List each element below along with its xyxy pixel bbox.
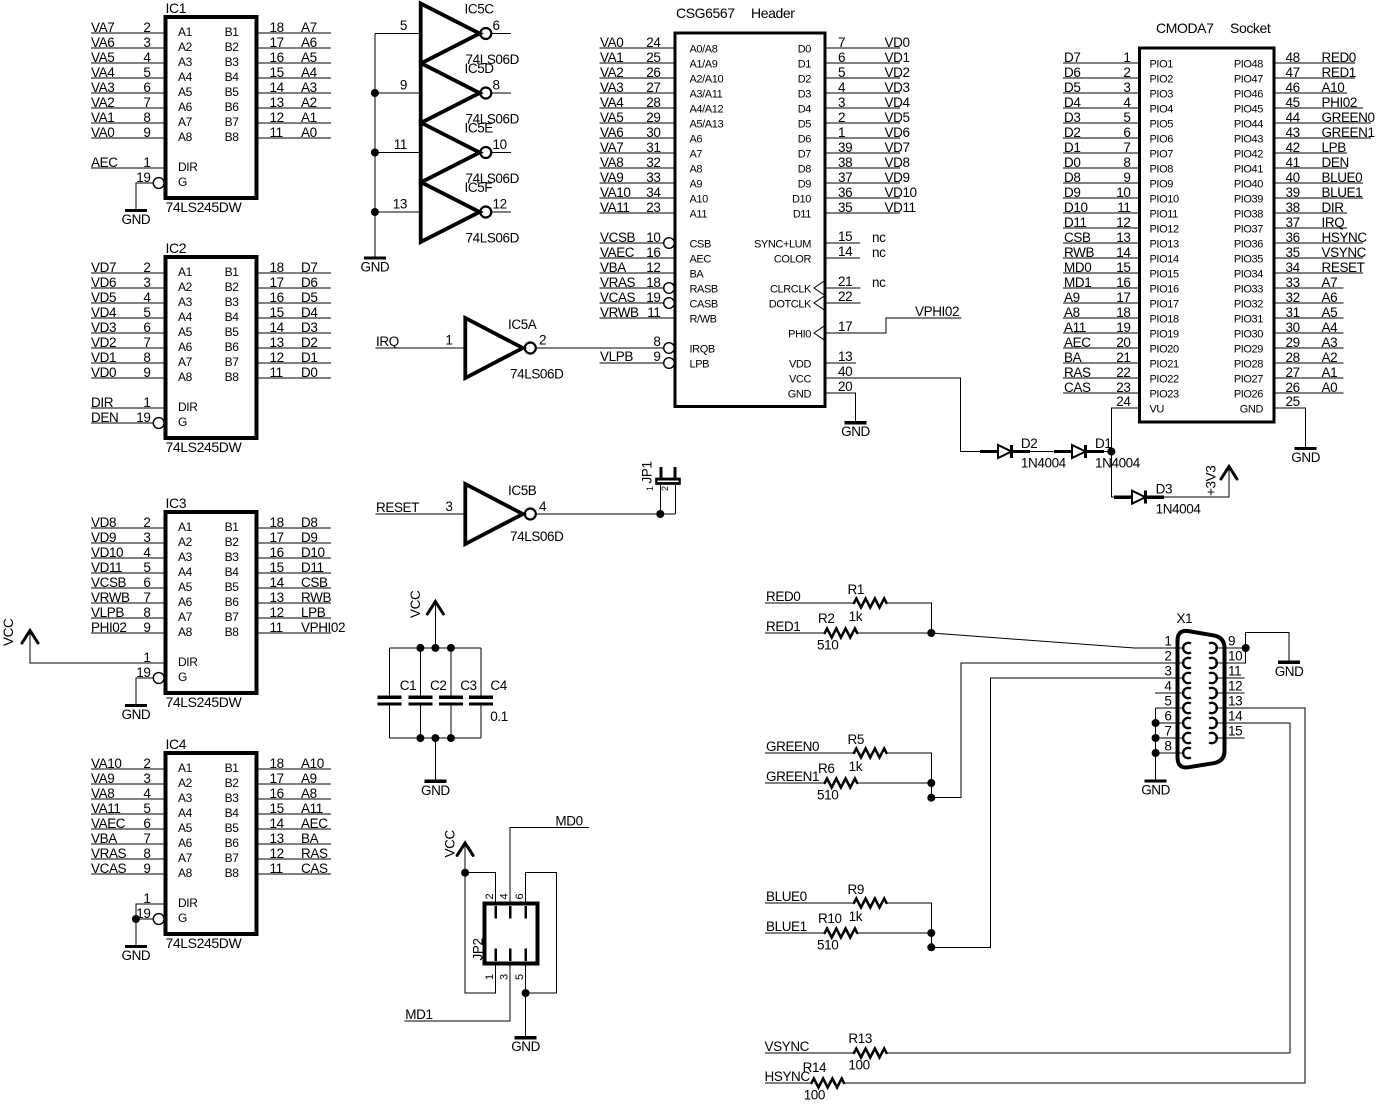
CSG6567 pin 39 wire VD7 xyxy=(798,140,910,161)
svg-text:PIO42: PIO42 xyxy=(1234,149,1263,161)
svg-text:IC5F: IC5F xyxy=(465,180,493,195)
svg-text:15: 15 xyxy=(838,229,852,244)
CSG6567 pin 36 wire VD10 xyxy=(792,185,917,206)
svg-text:2: 2 xyxy=(1164,649,1171,664)
CMODA7 pin 43 wire GREEN1 xyxy=(1234,125,1375,146)
svg-text:A10: A10 xyxy=(1322,80,1345,95)
svg-text:16: 16 xyxy=(270,545,284,560)
svg-text:B8: B8 xyxy=(225,370,240,384)
svg-text:4: 4 xyxy=(143,786,151,801)
svg-text:8: 8 xyxy=(143,605,150,620)
svg-text:VCC: VCC xyxy=(443,830,458,858)
IC4 pin 2 wire VA10 xyxy=(91,756,193,775)
IC IC4 74LS245 box xyxy=(166,736,257,951)
svg-text:6: 6 xyxy=(838,50,845,65)
svg-text:74LS06D: 74LS06D xyxy=(510,529,564,544)
svg-text:A6: A6 xyxy=(1322,290,1338,305)
svg-text:G: G xyxy=(178,415,187,429)
svg-text:D1: D1 xyxy=(1064,140,1080,155)
svg-text:SYNC+LUM: SYNC+LUM xyxy=(754,239,811,251)
svg-text:VPHI02: VPHI02 xyxy=(301,620,345,635)
svg-text:PIO47: PIO47 xyxy=(1234,74,1263,86)
svg-text:11: 11 xyxy=(270,125,283,140)
inverter IC5C 74LS06D xyxy=(421,2,520,68)
wire JP2 pin 2 to VCC xyxy=(465,873,496,903)
X1 pin 8 contact xyxy=(1183,748,1191,758)
svg-text:D10: D10 xyxy=(301,545,325,560)
svg-text:13: 13 xyxy=(270,590,284,605)
svg-text:R1: R1 xyxy=(848,582,864,597)
IC4 pin 8 wire VRAS xyxy=(91,846,193,865)
svg-text:B2: B2 xyxy=(225,40,240,54)
CMODA7 pin 22 wire RAS xyxy=(1063,365,1179,386)
IC2 pin 1 wire DIR xyxy=(91,395,164,410)
svg-text:B7: B7 xyxy=(225,851,240,865)
svg-text:17: 17 xyxy=(270,275,284,290)
IC1 pin 5 wire VA4 xyxy=(91,65,193,84)
svg-text:13: 13 xyxy=(393,197,407,212)
CMODA7 pin 25 GND wire xyxy=(1240,394,1306,449)
svg-text:8: 8 xyxy=(143,846,150,861)
svg-text:510: 510 xyxy=(817,788,838,803)
svg-text:CSB: CSB xyxy=(301,575,328,590)
CMODA7 pin 46 wire A10 xyxy=(1234,80,1347,101)
IC4 pin 15 wire A11 xyxy=(225,801,331,820)
svg-text:A6: A6 xyxy=(178,340,193,354)
svg-text:IC4: IC4 xyxy=(166,736,187,752)
svg-text:B2: B2 xyxy=(225,776,240,790)
svg-text:2: 2 xyxy=(1123,65,1130,80)
junction cap top rail xyxy=(431,644,439,652)
IC2 pin 5 wire VD4 xyxy=(91,305,193,324)
svg-text:VCAS: VCAS xyxy=(600,290,636,305)
svg-text:18: 18 xyxy=(270,20,284,35)
CSG6567 pin 22 DOTCLK xyxy=(769,289,861,311)
IC5E output wire pin 10 xyxy=(491,137,511,153)
svg-text:RAS: RAS xyxy=(1064,365,1091,380)
capacitor C4 xyxy=(469,648,508,738)
svg-text:PIO32: PIO32 xyxy=(1234,299,1263,311)
IC4 pin 4 wire VA8 xyxy=(91,786,193,805)
svg-text:9: 9 xyxy=(143,365,150,380)
X1 pin 10 wire xyxy=(1215,662,1246,664)
svg-text:12: 12 xyxy=(1228,679,1242,694)
svg-text:A1: A1 xyxy=(178,25,193,39)
IC4 pin 5 wire VA11 xyxy=(91,801,193,820)
svg-text:22: 22 xyxy=(1116,365,1130,380)
capacitor C2 xyxy=(408,648,446,738)
svg-text:5: 5 xyxy=(838,65,845,80)
CSG6567 pin 25 wire VA1 xyxy=(600,50,718,71)
resistor R1 1k xyxy=(848,582,887,624)
svg-text:A2: A2 xyxy=(178,280,193,294)
junction GREEN to X1 xyxy=(927,794,935,802)
svg-text:B7: B7 xyxy=(225,355,240,369)
resistor R6 510 xyxy=(817,761,857,803)
X1 pin 14 wire start xyxy=(1215,722,1290,724)
resistor R2 510 xyxy=(817,611,857,653)
ground at CMODA7 pin 25 xyxy=(1291,449,1320,466)
svg-text:37: 37 xyxy=(1286,215,1300,230)
svg-text:VCC: VCC xyxy=(1,618,16,646)
IC IC3 74LS245 box xyxy=(166,495,257,710)
svg-text:5: 5 xyxy=(143,801,150,816)
IC4 pin 11 wire CAS xyxy=(225,861,331,880)
svg-text:12: 12 xyxy=(646,260,660,275)
svg-text:6: 6 xyxy=(1123,125,1130,140)
wire RED junction to X1 pin 1 xyxy=(931,633,1184,648)
svg-text:B5: B5 xyxy=(225,821,240,835)
IC1 pin 16 wire A5 xyxy=(225,50,331,69)
IC5A output pin 2 wire to IRQB xyxy=(536,333,664,349)
svg-text:IRQB: IRQB xyxy=(690,344,715,356)
CSG6567 pin 7 wire VD0 xyxy=(798,35,910,56)
svg-text:4: 4 xyxy=(1123,95,1131,110)
IC4 pin 19 wire xyxy=(136,906,154,921)
svg-text:G: G xyxy=(178,175,187,189)
IC2 pin 4 wire VD5 xyxy=(91,290,193,309)
IC2 pin 18 wire D7 xyxy=(225,260,331,279)
wire VCC to D2 xyxy=(960,451,980,453)
svg-text:VLPB: VLPB xyxy=(91,605,124,620)
wire GND rail of capacitors xyxy=(390,737,481,739)
svg-text:15: 15 xyxy=(270,560,284,575)
svg-text:7: 7 xyxy=(143,831,150,846)
svg-text:PIO36: PIO36 xyxy=(1234,239,1263,251)
svg-text:VCSB: VCSB xyxy=(91,575,127,590)
svg-text:23: 23 xyxy=(1116,380,1130,395)
svg-text:40: 40 xyxy=(838,364,852,379)
svg-text:VBA: VBA xyxy=(600,260,626,275)
IC2 pin 13 wire D2 xyxy=(225,335,331,354)
svg-text:10: 10 xyxy=(646,230,660,245)
ground at X1 pins 5-8 xyxy=(1141,781,1170,798)
svg-text:PIO15: PIO15 xyxy=(1150,269,1179,281)
VCC supply at IC3 pin 1 xyxy=(1,618,38,646)
IC5C output wire pin 6 xyxy=(491,18,511,34)
svg-text:D7: D7 xyxy=(798,149,812,161)
svg-text:MD1: MD1 xyxy=(405,1007,432,1022)
svg-text:D0: D0 xyxy=(301,365,317,380)
IC4 pin 14 wire AEC xyxy=(225,816,331,835)
svg-text:B5: B5 xyxy=(225,85,240,99)
CMODA7 pin 44 wire GREEN0 xyxy=(1234,110,1375,131)
IC3 pin 6 wire VCSB xyxy=(91,575,193,594)
ground at CSG6567 pin 20 xyxy=(841,423,870,440)
svg-text:74LS06D: 74LS06D xyxy=(466,231,520,246)
IC3 pin 2 wire VD8 xyxy=(91,515,193,534)
svg-text:D11: D11 xyxy=(793,209,811,221)
svg-text:10: 10 xyxy=(1228,649,1242,664)
svg-text:2: 2 xyxy=(143,260,150,275)
svg-text:B5: B5 xyxy=(225,580,240,594)
svg-text:24: 24 xyxy=(1116,394,1131,409)
svg-text:7: 7 xyxy=(143,590,150,605)
svg-text:B6: B6 xyxy=(225,836,240,850)
CSG6567 pin 24 wire VA0 xyxy=(600,35,718,56)
IC4 pin 6 wire VAEC xyxy=(91,816,193,835)
svg-text:A4: A4 xyxy=(301,65,318,80)
svg-text:6: 6 xyxy=(514,894,526,900)
svg-text:6: 6 xyxy=(143,80,150,95)
svg-text:6: 6 xyxy=(143,816,150,831)
svg-text:A6: A6 xyxy=(178,100,193,114)
X1 pin 4 stub wire xyxy=(1155,692,1184,694)
svg-text:B7: B7 xyxy=(225,115,240,129)
wire R2 to junction xyxy=(856,632,931,634)
svg-text:11: 11 xyxy=(270,365,283,380)
svg-text:15: 15 xyxy=(1228,724,1242,739)
svg-text:VD8: VD8 xyxy=(885,155,910,170)
X1 pin 13 contact xyxy=(1209,703,1217,713)
wire R5 to junction xyxy=(887,753,932,783)
CSG6567 pin 8 IRQB bubble xyxy=(653,334,714,356)
svg-text:22: 22 xyxy=(838,289,852,304)
IC5B output pin 4 wire to JP1 xyxy=(536,499,675,514)
CMODA7 pin 4 wire D4 xyxy=(1063,95,1173,116)
svg-text:GND: GND xyxy=(360,260,389,275)
CMODA7 pin 37 wire IRQ xyxy=(1234,215,1347,236)
CSG6567 pin 38 wire VD8 xyxy=(798,155,910,176)
svg-text:D5: D5 xyxy=(798,119,812,131)
svg-text:18: 18 xyxy=(646,275,660,290)
CMODA7 pin 12 wire D11 xyxy=(1063,215,1179,236)
svg-text:17: 17 xyxy=(270,530,284,545)
svg-text:A10: A10 xyxy=(301,756,324,771)
svg-text:1: 1 xyxy=(484,974,496,980)
svg-text:JP2: JP2 xyxy=(471,938,486,960)
svg-text:D10: D10 xyxy=(1064,200,1088,215)
svg-text:B7: B7 xyxy=(225,610,240,624)
svg-text:D9: D9 xyxy=(1064,185,1080,200)
svg-text:PIO10: PIO10 xyxy=(1150,194,1179,206)
svg-text:GND: GND xyxy=(1141,782,1170,797)
svg-text:8: 8 xyxy=(1123,155,1130,170)
svg-text:28: 28 xyxy=(646,95,660,110)
IC5D output wire pin 8 xyxy=(491,78,511,94)
svg-text:VD1: VD1 xyxy=(885,50,910,65)
CSG6567 pin 34 wire VA10 xyxy=(600,185,709,206)
svg-text:A3: A3 xyxy=(178,791,193,805)
svg-text:PIO5: PIO5 xyxy=(1150,119,1174,131)
svg-text:PIO28: PIO28 xyxy=(1234,359,1263,371)
CMODA7 pin 38 wire DIR xyxy=(1234,200,1347,221)
IC5D input wire pin 9 xyxy=(375,78,421,94)
svg-text:39: 39 xyxy=(1286,185,1300,200)
svg-text:D6: D6 xyxy=(301,275,317,290)
X1 pin 9 contact xyxy=(1209,643,1217,653)
svg-text:3: 3 xyxy=(143,35,150,50)
connector X1 DSUB-15 body xyxy=(1177,611,1225,767)
svg-text:13: 13 xyxy=(270,95,284,110)
svg-text:R/WB: R/WB xyxy=(690,314,717,326)
IC3 pin 13 wire RWB xyxy=(225,590,332,609)
svg-text:PIO9: PIO9 xyxy=(1150,179,1174,191)
+3V3 supply symbol xyxy=(1204,466,1238,496)
CSG6567 pin 17 PHI0 wire to VPHI02 xyxy=(788,304,961,341)
svg-text:38: 38 xyxy=(838,155,852,170)
svg-text:31: 31 xyxy=(646,140,660,155)
net MD0 wire from JP2 pin 4 xyxy=(510,814,588,904)
net GREEN1 wire xyxy=(765,769,825,784)
svg-text:30: 30 xyxy=(1286,320,1300,335)
wire VCC rail of capacitors xyxy=(390,647,481,649)
IC1 pin 4 wire VA5 xyxy=(91,50,193,69)
IC3 pin 17 wire D9 xyxy=(225,530,331,549)
svg-text:12: 12 xyxy=(270,110,284,125)
svg-text:GND: GND xyxy=(511,1039,540,1054)
CSG6567 pin 33 wire VA9 xyxy=(600,170,703,191)
svg-text:VA11: VA11 xyxy=(600,200,629,215)
junction BLUE0/BLUE1 xyxy=(927,929,935,937)
svg-text:1N4004: 1N4004 xyxy=(1095,456,1141,471)
X1 pin 7 contact xyxy=(1183,733,1191,743)
svg-text:21: 21 xyxy=(1116,350,1130,365)
CMODA7 pin 20 wire AEC xyxy=(1063,335,1179,356)
svg-text:VD10: VD10 xyxy=(91,545,123,560)
svg-text:14: 14 xyxy=(270,80,285,95)
svg-text:RAS: RAS xyxy=(301,846,328,861)
ground of IC5 input bus xyxy=(360,258,389,275)
svg-text:A5: A5 xyxy=(1322,305,1338,320)
IC3 pin 19 wire to ground xyxy=(136,665,154,706)
svg-text:VA5: VA5 xyxy=(600,110,623,125)
svg-text:A11: A11 xyxy=(690,209,708,221)
IC1 pin 19 wire to ground xyxy=(136,170,154,211)
net GREEN0 wire xyxy=(765,739,854,754)
net BLUE1 wire xyxy=(765,919,825,934)
svg-text:IC3: IC3 xyxy=(166,495,187,511)
svg-text:47: 47 xyxy=(1286,65,1300,80)
svg-text:R13: R13 xyxy=(848,1031,872,1046)
svg-text:PIO20: PIO20 xyxy=(1150,344,1179,356)
svg-text:R2: R2 xyxy=(818,611,834,626)
wire bus of IC5 inputs to ground xyxy=(374,34,376,259)
IC2 pin 19 wire DEN xyxy=(91,410,154,425)
svg-text:34: 34 xyxy=(646,185,661,200)
svg-text:VA8: VA8 xyxy=(600,155,623,170)
svg-text:26: 26 xyxy=(1286,380,1300,395)
svg-text:A2: A2 xyxy=(178,40,193,54)
svg-text:VA11: VA11 xyxy=(91,801,120,816)
CSG6567 pin 26 wire VA2 xyxy=(600,65,724,86)
svg-text:RED1: RED1 xyxy=(1322,65,1356,80)
svg-text:PIO12: PIO12 xyxy=(1150,224,1179,236)
svg-text:14: 14 xyxy=(270,320,285,335)
svg-text:PIO40: PIO40 xyxy=(1234,179,1263,191)
svg-text:VD7: VD7 xyxy=(91,260,116,275)
svg-text:GND: GND xyxy=(1240,404,1264,416)
junction IC5D input xyxy=(371,89,379,97)
svg-text:3: 3 xyxy=(143,530,150,545)
jumper JP2 box xyxy=(471,894,538,981)
svg-text:C1: C1 xyxy=(400,678,416,693)
CSG6567 pin 30 wire VA6 xyxy=(600,125,703,146)
svg-text:A5: A5 xyxy=(178,85,193,99)
wire JP2 pin 1 loop to VCC xyxy=(465,873,496,993)
svg-text:VA3: VA3 xyxy=(600,80,623,95)
svg-text:VD3: VD3 xyxy=(91,320,116,335)
IC2 pin 11 wire D0 xyxy=(225,365,331,384)
svg-text:9: 9 xyxy=(143,125,150,140)
svg-text:A4: A4 xyxy=(178,806,193,820)
svg-text:LPB: LPB xyxy=(301,605,326,620)
svg-text:A0: A0 xyxy=(1322,380,1338,395)
net RED1 wire xyxy=(765,619,825,634)
IC CSG6567 Header box xyxy=(675,5,825,407)
CSG6567 pin 21 CLRCLK nc xyxy=(770,274,886,296)
svg-text:A3: A3 xyxy=(178,550,193,564)
IC1 pin 12 wire A1 xyxy=(225,110,331,129)
svg-text:A3: A3 xyxy=(178,295,193,309)
jumper JP1 xyxy=(640,461,681,514)
svg-text:PIO11: PIO11 xyxy=(1150,209,1179,221)
svg-text:A5: A5 xyxy=(178,325,193,339)
svg-text:VA7: VA7 xyxy=(91,20,114,35)
junction JP1 pin 1 xyxy=(656,510,664,518)
CMODA7 pin 33 wire A7 xyxy=(1234,275,1344,296)
svg-text:PIO48: PIO48 xyxy=(1234,59,1263,71)
svg-text:PIO35: PIO35 xyxy=(1234,254,1263,266)
IC2 pin 19 inversion circle xyxy=(153,418,164,429)
svg-text:D3: D3 xyxy=(798,89,812,101)
CSG6567 pin 2 wire VD5 xyxy=(798,110,910,131)
svg-text:C3: C3 xyxy=(460,678,476,693)
svg-text:5: 5 xyxy=(143,65,150,80)
IC2 pin 14 wire D3 xyxy=(225,320,331,339)
X1 pin 9 wire xyxy=(1215,647,1246,649)
svg-text:VSYNC: VSYNC xyxy=(1322,245,1367,260)
CSG6567 pin 1 wire VD6 xyxy=(798,125,910,146)
svg-text:74LS245DW: 74LS245DW xyxy=(166,694,243,710)
svg-text:GND: GND xyxy=(1275,664,1304,679)
IC4 pin 3 wire VA9 xyxy=(91,771,193,790)
svg-text:VD5: VD5 xyxy=(885,110,910,125)
svg-text:B3: B3 xyxy=(225,55,240,69)
X1 pin 5 contact xyxy=(1183,703,1191,713)
junction IC4 pin1/pin19 xyxy=(132,915,140,923)
svg-text:D11: D11 xyxy=(301,560,324,575)
X1 pin 10 contact xyxy=(1209,658,1217,668)
svg-text:VA10: VA10 xyxy=(600,185,630,200)
svg-text:GREEN1: GREEN1 xyxy=(1322,125,1375,140)
svg-text:8: 8 xyxy=(143,110,150,125)
CMODA7 pin 41 wire DEN xyxy=(1234,155,1349,176)
svg-text:VRAS: VRAS xyxy=(91,846,127,861)
IC1 pin 17 wire A6 xyxy=(225,35,331,54)
svg-text:3: 3 xyxy=(1164,664,1171,679)
svg-text:RESET: RESET xyxy=(1322,260,1365,275)
svg-text:1: 1 xyxy=(1123,50,1130,65)
svg-text:9: 9 xyxy=(143,861,150,876)
svg-text:CLRCLK: CLRCLK xyxy=(770,284,812,296)
svg-text:PIO22: PIO22 xyxy=(1150,374,1179,386)
svg-text:BLUE0: BLUE0 xyxy=(766,889,807,904)
svg-text:VD0: VD0 xyxy=(91,365,116,380)
IC2 pin 6 wire VD3 xyxy=(91,320,193,339)
CMODA7 pin 8 wire D0 xyxy=(1063,155,1173,176)
ground at X1 pins 9-10 xyxy=(1275,662,1304,679)
IC5F output wire pin 12 xyxy=(491,197,511,213)
CSG6567 pin 27 wire VA3 xyxy=(600,80,723,101)
svg-text:PIO21: PIO21 xyxy=(1150,359,1179,371)
svg-text:PIO19: PIO19 xyxy=(1150,329,1179,341)
IC2 pin 3 wire VD6 xyxy=(91,275,193,294)
svg-text:A1: A1 xyxy=(178,761,193,775)
svg-text:5: 5 xyxy=(143,560,150,575)
svg-text:A4: A4 xyxy=(178,70,193,84)
svg-text:A2: A2 xyxy=(178,776,193,790)
